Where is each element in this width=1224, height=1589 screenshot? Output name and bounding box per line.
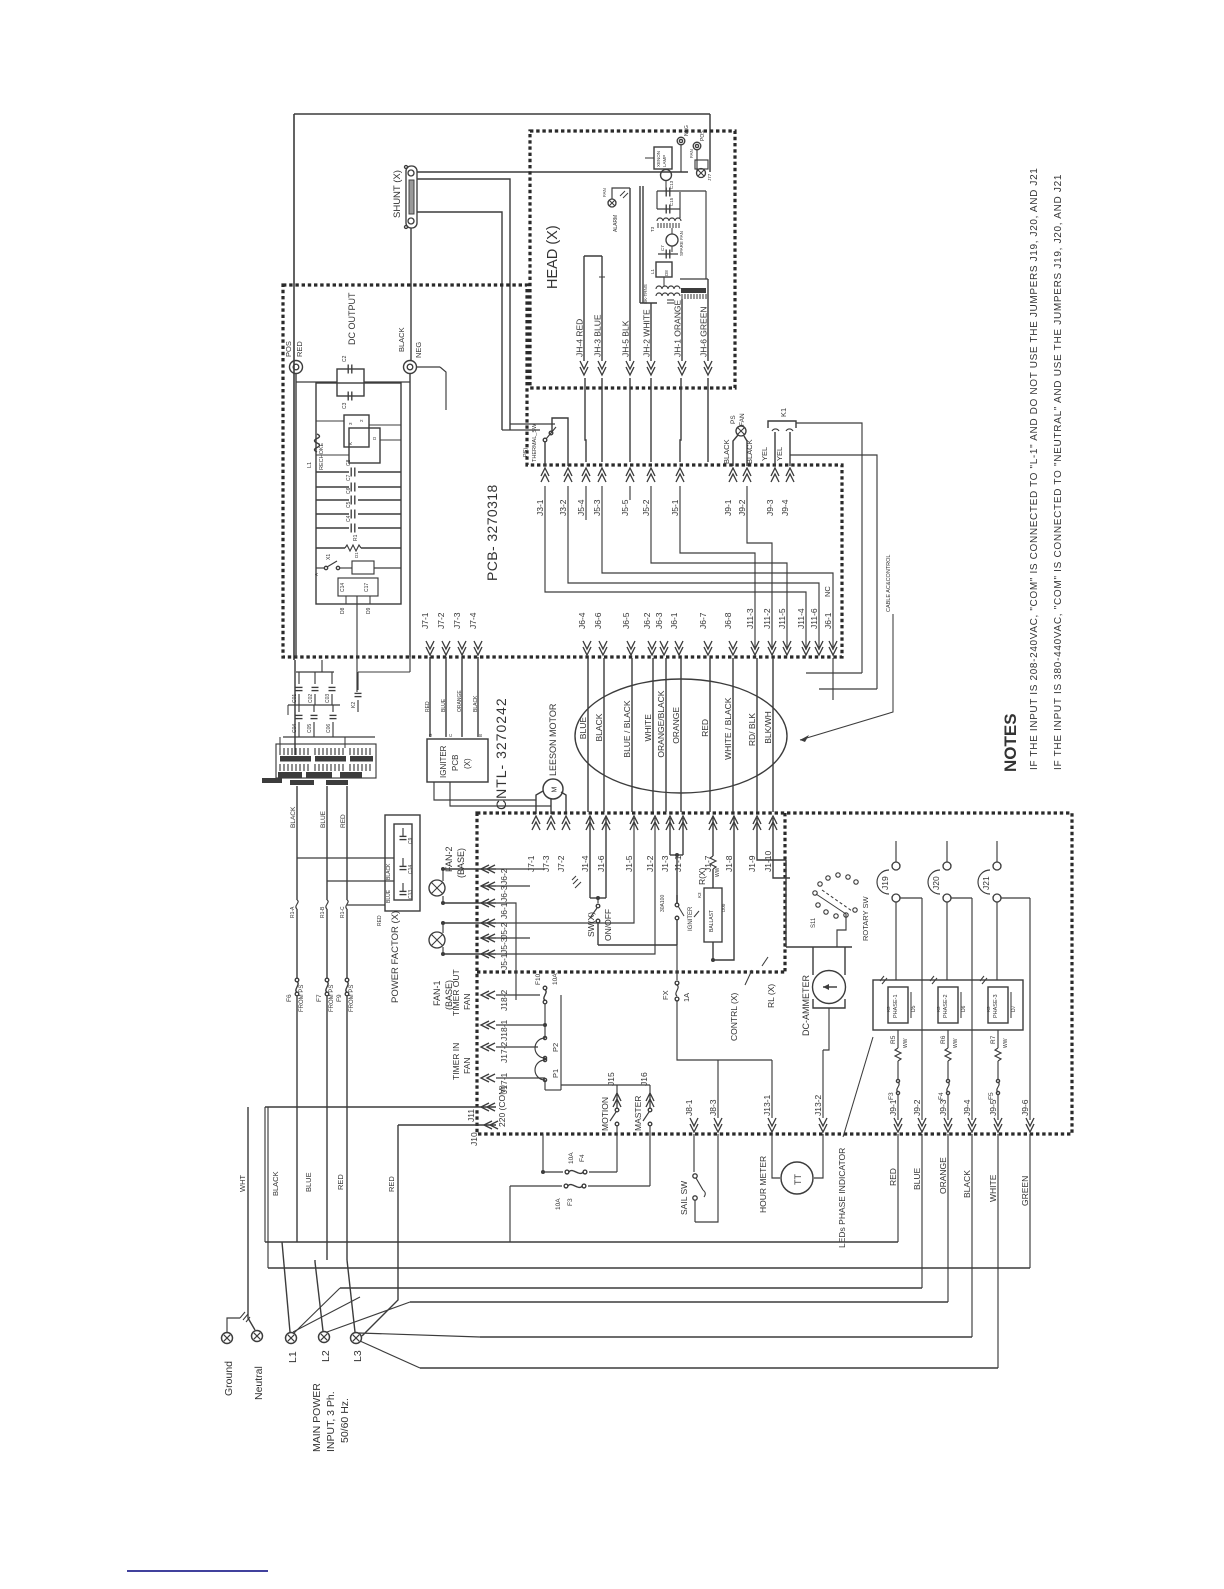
label BLACK j9-2 <box>745 439 754 464</box>
wire WHITE / BLACK cable <box>723 658 733 812</box>
svg-text:T3: T3 <box>650 226 655 232</box>
svg-text:PCB- 3270318: PCB- 3270318 <box>484 484 500 581</box>
wire ORANGE/BLACK cable <box>656 658 666 812</box>
svg-text:WHT: WHT <box>238 1175 247 1192</box>
resistor R(X) <box>697 816 721 888</box>
svg-text:J1-5: J1-5 <box>624 855 634 872</box>
svg-text:J1-1: J1-1 <box>673 855 683 872</box>
svg-text:J11-6: J11-6 <box>809 608 819 629</box>
svg-text:D1: D1 <box>354 552 359 558</box>
wire j11-4 wrap <box>806 672 862 674</box>
pin J15 MOTION <box>600 1072 621 1134</box>
svg-text:WW: WW <box>1003 1038 1009 1048</box>
svg-text:C15: C15 <box>669 197 674 206</box>
pin J5-2 cntl-left <box>481 919 509 939</box>
pin J17-2 cntl-left <box>481 1041 509 1063</box>
svg-text:D00: D00 <box>721 903 726 912</box>
svg-text:BLUE / BLACK: BLUE / BLACK <box>622 700 632 757</box>
relay K3 PHASE-2 <box>930 976 967 1030</box>
wire L2 diag <box>327 1302 410 1332</box>
svg-text:J5-5: J5-5 <box>620 499 630 516</box>
pin J18-1 cntl-left <box>481 1019 509 1041</box>
cable bundle ellipse <box>575 679 787 793</box>
capacitor C2 C3 <box>316 355 364 409</box>
jumper J21 <box>978 841 1001 980</box>
svg-text:PHASE-1: PHASE-1 <box>893 994 899 1018</box>
svg-text:J11: J11 <box>466 1109 476 1122</box>
relay block PHASE <box>873 980 1023 1030</box>
svg-text:ORANGE: ORANGE <box>457 690 463 712</box>
svg-text:IF THE INPUT IS 380-440VAC, "C: IF THE INPUT IS 380-440VAC, "COM" IS CON… <box>1053 174 1064 770</box>
svg-text:RD/ BLK: RD/ BLK <box>747 713 757 746</box>
pin J9-1 <box>723 468 737 516</box>
terminal Ground <box>222 1312 251 1396</box>
fuse F4 <box>938 1079 950 1120</box>
svg-text:P1: P1 <box>551 1069 560 1078</box>
wire JH-4 riser <box>583 256 585 361</box>
fan B2 <box>689 149 712 181</box>
label GREEN bottom <box>1020 1176 1030 1206</box>
terminal NEG <box>397 327 423 373</box>
wire shunt tap2 <box>417 179 510 430</box>
svg-text:D7: D7 <box>1011 1005 1017 1012</box>
svg-text:THERMAL_SW: THERMAL_SW <box>532 423 538 462</box>
svg-text:WW: WW <box>903 1038 909 1048</box>
wire feeder labels2 <box>290 906 346 918</box>
svg-text:J11-2: J11-2 <box>762 608 772 629</box>
svg-text:(BASE): (BASE) <box>456 848 466 878</box>
svg-text:L1: L1 <box>287 1351 299 1363</box>
svg-text:J19: J19 <box>880 876 890 890</box>
relay K3 PHASE-3 <box>980 976 1017 1030</box>
pin JH-3 head lead <box>593 314 607 375</box>
svg-text:NEG: NEG <box>414 342 423 358</box>
svg-text:J10: J10 <box>469 1132 479 1146</box>
svg-text:F6: F6 <box>286 994 293 1002</box>
svg-text:10A: 10A <box>568 1152 575 1164</box>
svg-text:(X): (X) <box>463 758 472 769</box>
board IGNITER PCB (X) <box>427 733 488 782</box>
svg-text:F5: F5 <box>988 1092 995 1100</box>
switch THERMAL_SW <box>523 418 568 466</box>
svg-text:POWER FACTOR (X): POWER FACTOR (X) <box>390 911 401 1003</box>
svg-text:R1-A: R1-A <box>290 906 296 918</box>
svg-text:J1-4: J1-4 <box>580 855 590 872</box>
pin J10 cntl-left <box>469 1121 498 1146</box>
pin J6-2 bottom <box>642 612 656 655</box>
svg-text:FAN-2: FAN-2 <box>444 846 454 872</box>
svg-text:J8-1: J8-1 <box>684 1099 694 1116</box>
pin J9-1 bottom <box>888 1099 902 1132</box>
fan FAN-2 BASE <box>429 846 496 905</box>
pin J6-7 bottom <box>698 612 712 655</box>
lamp DS1 XENON LAMP <box>645 147 672 181</box>
svg-text:J5-1: J5-1 <box>499 953 509 970</box>
svg-text:C13: C13 <box>408 890 414 899</box>
svg-text:JH-5 BLK: JH-5 BLK <box>621 320 631 357</box>
capacitor C7 <box>316 474 401 491</box>
svg-text:F9: F9 <box>336 994 343 1002</box>
svg-text:C13: C13 <box>669 180 674 189</box>
svg-text:A: A <box>314 573 319 576</box>
svg-text:CABLE AC&CONTROL: CABLE AC&CONTROL <box>886 555 892 612</box>
wire left bus b <box>267 1107 269 1268</box>
jumper J20 <box>928 841 951 980</box>
svg-text:30A100: 30A100 <box>660 895 666 912</box>
capacitor C5 <box>316 501 401 518</box>
pin J1-7 cntl <box>703 816 717 872</box>
svg-text:FROM PS: FROM PS <box>299 985 305 1012</box>
svg-text:L2: L2 <box>320 1350 332 1362</box>
svg-text:SHUNT (X): SHUNT (X) <box>392 170 403 218</box>
resistor R5 <box>890 1030 909 1080</box>
panel outline CONTRL (X) <box>477 813 1072 1134</box>
svg-text:J18-1: J18-1 <box>499 1019 509 1041</box>
wire bus ORANGE <box>410 1134 948 1302</box>
jumper J19 <box>877 841 900 980</box>
pin J6-3 cntl-left <box>481 882 509 902</box>
transformer T1 <box>280 748 311 771</box>
svg-text:F10: F10 <box>535 973 542 985</box>
pin J6-4 bottom <box>577 612 591 655</box>
svg-text:MAIN POWER: MAIN POWER <box>311 1383 323 1452</box>
wire pf black <box>297 858 394 880</box>
svg-text:J11-4: J11-4 <box>796 608 806 629</box>
wire JH-2 riser <box>640 186 657 361</box>
wire jh to pcb <box>650 378 652 462</box>
label BLACK bottom <box>962 1170 972 1198</box>
label BLACK j9-1 <box>722 439 731 464</box>
assembly POWER FACTOR (X) <box>385 815 420 1003</box>
pin J17-1 cntl-left <box>481 1072 509 1094</box>
meter HOUR METER <box>758 1134 823 1213</box>
label ORANGE bottom <box>938 1157 948 1194</box>
svg-text:ORANGE: ORANGE <box>671 707 681 744</box>
svg-text:BLACK: BLACK <box>397 327 406 352</box>
label TIMER IN FAN <box>451 1043 472 1080</box>
wire motion master feeds <box>545 972 650 1108</box>
pin J9-3 bottom <box>938 1099 952 1132</box>
resistor R1 pcb <box>316 534 401 551</box>
svg-text:C02: C02 <box>308 694 314 703</box>
wire j6-1b stub <box>832 658 834 700</box>
capacitor C05 <box>307 705 318 737</box>
svg-text:WHITE: WHITE <box>988 1174 998 1202</box>
label WHITE bottom <box>988 1174 998 1202</box>
capacitor C03 <box>325 672 336 705</box>
wire pf red <box>347 905 385 926</box>
wire master drop <box>649 1134 651 1186</box>
leader CABLE AC&CONTROL <box>800 555 893 742</box>
svg-text:R1-C: R1-C <box>340 906 346 918</box>
svg-text:R6: R6 <box>940 1035 947 1044</box>
wire cap rail top <box>296 657 334 672</box>
terminal Neutral <box>252 1331 266 1401</box>
pin J7-3 cntl <box>541 816 555 872</box>
svg-text:BLK/WH: BLK/WH <box>763 711 773 744</box>
wire enclosure top <box>294 114 710 172</box>
pin JH-1 head lead <box>673 300 687 375</box>
wire JH-5 riser <box>629 188 631 361</box>
wire WHITE cable <box>643 658 653 812</box>
wire left bus a <box>264 1107 266 1242</box>
svg-text:J1-2: J1-2 <box>645 855 655 872</box>
wire jh to pcb <box>585 378 586 462</box>
svg-text:X1: X1 <box>326 554 332 560</box>
pin J1-6 cntl <box>596 816 610 872</box>
svg-text:J5-2: J5-2 <box>499 922 509 939</box>
pin J8-3 cntl-bottom <box>708 1099 722 1132</box>
wire RED igniter feed <box>425 657 431 737</box>
terminal L1 <box>286 1333 300 1364</box>
svg-text:POS: POS <box>700 130 706 141</box>
capacitor C02 <box>308 672 319 705</box>
svg-text:FAN: FAN <box>602 188 607 197</box>
svg-text:J5-4: J5-4 <box>576 499 586 516</box>
svg-text:J15: J15 <box>606 1072 616 1086</box>
svg-text:J7-4: J7-4 <box>468 612 478 629</box>
svg-text:ORANGE: ORANGE <box>938 1157 948 1194</box>
wire ORANGE cable <box>671 658 681 812</box>
svg-text:J6-2: J6-2 <box>642 612 652 629</box>
pin J7-1 cntl <box>526 816 540 872</box>
pin J5-1 <box>670 468 684 516</box>
wire j1-9 route <box>757 818 786 860</box>
pin J5-2 <box>641 468 655 516</box>
svg-text:C05: C05 <box>307 724 313 733</box>
svg-text:J9-4: J9-4 <box>962 1099 972 1116</box>
svg-text:C03: C03 <box>325 694 331 703</box>
svg-text:BLACK: BLACK <box>594 713 604 741</box>
svg-text:BLACK: BLACK <box>962 1170 972 1198</box>
pin J6-1 bottom <box>669 612 683 655</box>
capacitor C04 <box>292 705 303 737</box>
wire j6-2 run <box>496 868 590 870</box>
wire RED2 drop <box>362 1125 398 1336</box>
switch X1 <box>314 554 352 576</box>
svg-text:FAN: FAN <box>462 993 472 1010</box>
svg-text:D6: D6 <box>961 1005 967 1012</box>
svg-text:J9-4: J9-4 <box>780 499 790 516</box>
svg-text:FAN: FAN <box>462 1057 472 1074</box>
svg-text:L3: L3 <box>352 1350 364 1362</box>
svg-text:YEL: YEL <box>760 447 769 461</box>
svg-text:J1-6: J1-6 <box>596 855 606 872</box>
svg-text:LEDs PHASE INDICATOR: LEDs PHASE INDICATOR <box>837 1148 847 1248</box>
svg-text:ON/OFF: ON/OFF <box>603 909 613 941</box>
svg-text:BALLAST: BALLAST <box>709 910 715 932</box>
svg-text:Neutral: Neutral <box>253 1366 265 1400</box>
pin J11-5 bottom <box>777 608 791 655</box>
transformer T3 head <box>650 218 681 232</box>
svg-text:C9: C9 <box>408 837 414 844</box>
wire neg rail <box>410 367 446 657</box>
wire k1 wrap b <box>790 455 877 689</box>
svg-text:J6-3: J6-3 <box>499 885 509 902</box>
svg-text:D8: D8 <box>664 270 669 276</box>
svg-text:10A: 10A <box>555 1198 562 1210</box>
wire BLUE igniter feed <box>441 657 447 737</box>
svg-text:CONTRL (X): CONTRL (X) <box>729 993 739 1041</box>
wire j11 long <box>265 1106 496 1108</box>
svg-text:J5-1: J5-1 <box>670 499 680 516</box>
wire BLACK cable <box>594 658 604 812</box>
svg-text:C14: C14 <box>340 583 346 592</box>
fuse F5 <box>988 1079 1000 1120</box>
wire ORANGE igniter feed <box>457 657 463 737</box>
svg-text:PHASE-3: PHASE-3 <box>993 994 999 1018</box>
svg-text:POS: POS <box>284 341 293 357</box>
wire j5-1 run <box>496 818 655 954</box>
svg-text:ALARM: ALARM <box>613 215 619 232</box>
wire staircase from shunt <box>502 424 555 430</box>
svg-text:LEESON MOTOR: LEESON MOTOR <box>548 703 558 776</box>
pin J1-1 cntl <box>673 816 687 872</box>
svg-text:IF THE INPUT IS 208-240VAC, "C: IF THE INPUT IS 208-240VAC, "COM" IS CON… <box>1029 168 1040 771</box>
svg-text:J3-2: J3-2 <box>558 499 568 516</box>
capacitor C01 <box>292 672 303 705</box>
wire bus WHITE <box>420 1134 998 1368</box>
svg-text:DC OUTPUT: DC OUTPUT <box>347 292 357 345</box>
svg-text:C04: C04 <box>292 724 298 733</box>
svg-text:J8-3: J8-3 <box>708 1099 718 1116</box>
label NOTES title <box>1001 713 1020 772</box>
svg-text:C5: C5 <box>346 501 352 508</box>
wire head entry <box>681 145 697 172</box>
svg-text:J6-1: J6-1 <box>499 902 509 919</box>
svg-text:C7: C7 <box>660 245 665 251</box>
pin J6-3 bottom <box>654 612 668 655</box>
svg-text:INPUT, 3 Ph.: INPUT, 3 Ph. <box>325 1391 337 1452</box>
wire BLUE drop <box>304 996 323 1331</box>
wire j19 ret <box>900 898 922 1120</box>
wire j13-2 riser <box>823 1008 829 1118</box>
pin J6-1 bottom <box>823 612 837 655</box>
svg-text:PS): PS) <box>523 448 529 457</box>
svg-text:J6-2: J6-2 <box>499 868 509 885</box>
wire L3 diag a <box>359 1333 480 1337</box>
svg-text:J9-3: J9-3 <box>765 499 775 516</box>
terminal L2 <box>319 1332 333 1363</box>
pin JH-4 head lead <box>575 319 589 375</box>
pin J6-6 bottom <box>593 612 607 655</box>
wire j6-1 run <box>496 903 516 1000</box>
terminal L3 <box>351 1333 365 1363</box>
wire route j9-2b <box>747 486 772 650</box>
svg-text:DC-AMMETER: DC-AMMETER <box>801 975 811 1036</box>
pin J3-2 <box>558 468 572 516</box>
svg-text:PS: PS <box>730 415 737 424</box>
svg-text:K3: K3 <box>936 1006 941 1012</box>
pin J9-3 <box>765 468 779 516</box>
svg-text:RED: RED <box>387 1176 396 1192</box>
wire bus BLUE <box>340 1134 922 1288</box>
svg-text:R(X): R(X) <box>697 867 707 885</box>
svg-text:J9-1: J9-1 <box>888 1099 898 1116</box>
svg-text:XENON: XENON <box>656 151 661 167</box>
pin J7-4 bottom <box>468 612 482 655</box>
svg-text:J16: J16 <box>639 1072 649 1086</box>
pin J11-3 bottom <box>745 608 759 655</box>
svg-text:C6: C6 <box>346 487 352 494</box>
wire j10 long <box>398 1124 496 1126</box>
svg-text:BLACK: BLACK <box>386 863 392 880</box>
label CNTL-3270242 <box>493 697 509 810</box>
wire bus RED <box>265 1134 898 1242</box>
svg-text:K: K <box>348 442 353 445</box>
svg-text:J1-3: J1-3 <box>660 855 670 872</box>
svg-text:FROM PS: FROM PS <box>329 985 335 1012</box>
pin JH-2 head lead <box>642 309 656 375</box>
svg-text:C3: C3 <box>342 402 348 409</box>
board outline CNTL sub <box>477 813 785 972</box>
wire j11-6 wrap <box>819 688 877 690</box>
fuse F4 10A <box>541 1152 617 1174</box>
wire j1-10 route <box>773 818 790 878</box>
capacitor C6 <box>316 487 401 504</box>
pin J1-9 cntl <box>747 816 761 872</box>
svg-text:J6-3: J6-3 <box>654 612 664 629</box>
wire j1-3 j1-1 bracket <box>670 818 683 903</box>
svg-text:J21: J21 <box>981 876 991 890</box>
wire j20 ret <box>951 898 972 1120</box>
svg-text:CNTL- 3270242: CNTL- 3270242 <box>493 697 509 810</box>
pin J6-8 bottom <box>723 612 737 655</box>
pin J9-4 bottom <box>962 1099 976 1132</box>
svg-text:MOTION: MOTION <box>600 1097 610 1131</box>
inductor L1 RECHOKE <box>307 415 380 470</box>
wire L3 diag b <box>360 1341 420 1368</box>
pin J7-3 bottom <box>452 612 466 655</box>
wire jh to pcb <box>629 378 631 462</box>
svg-text:L1: L1 <box>650 268 655 274</box>
svg-text:HEAD (X): HEAD (X) <box>545 225 561 289</box>
svg-text:D5: D5 <box>911 1005 917 1012</box>
meter M2 DC-AMMETER <box>786 947 852 1036</box>
svg-text:NC: NC <box>823 586 832 597</box>
svg-text:FAN: FAN <box>739 413 746 426</box>
pin NC stub <box>823 586 832 597</box>
transformer T2 head <box>643 284 706 304</box>
svg-text:LAMP: LAMP <box>662 155 667 167</box>
svg-text:50/60 Hz.: 50/60 Hz. <box>339 1398 351 1443</box>
svg-text:RL (X): RL (X) <box>766 984 776 1008</box>
svg-text:J11-5: J11-5 <box>777 608 787 629</box>
svg-text:J18-2: J18-2 <box>499 989 509 1011</box>
svg-text:JH-3 BLUE: JH-3 BLUE <box>593 314 603 357</box>
label TIMER OUT FAN <box>451 969 472 1016</box>
wire route j3-2 <box>568 486 819 650</box>
svg-text:WW: WW <box>715 867 721 877</box>
transformer T3b <box>350 748 373 771</box>
svg-text:R1-B: R1-B <box>320 906 326 918</box>
pin J18-2 cntl-left <box>481 989 509 1011</box>
svg-text:J1-10: J1-10 <box>763 850 773 872</box>
svg-text:J9-2: J9-2 <box>737 499 747 516</box>
svg-text:BLUE: BLUE <box>304 1172 313 1192</box>
svg-text:L1: L1 <box>307 462 313 468</box>
svg-text:BLACK: BLACK <box>473 695 479 712</box>
svg-text:BLUE: BLUE <box>441 698 447 712</box>
pin J8-1 cntl-bottom <box>684 1099 698 1132</box>
wire route j5-1 <box>680 486 755 650</box>
capacitor C9 pf <box>400 828 415 848</box>
pin JH-5 head lead <box>621 320 635 375</box>
svg-text:1A: 1A <box>682 993 691 1002</box>
svg-text:WHITE: WHITE <box>643 714 653 742</box>
svg-text:JH-4 RED: JH-4 RED <box>575 319 585 357</box>
capacitor C06 <box>326 705 337 737</box>
